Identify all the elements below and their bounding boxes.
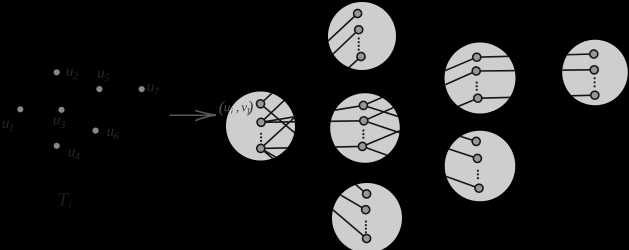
vertex C6.mid [473, 154, 481, 162]
vertex C3.mid [360, 117, 368, 125]
label u5 [98, 71, 109, 82]
edge C1.mid - C2.mid [261, 30, 359, 123]
vertical ellipsis in C2 [260, 133, 262, 135]
edge C3.bot - C5.bot [362, 98, 477, 146]
vertex C7.mid [590, 66, 598, 74]
label u6 [107, 129, 119, 140]
label T_i [59, 193, 72, 208]
label (u_i part [219, 101, 232, 116]
vertical ellipsis in C5 [476, 82, 478, 84]
label u3 [54, 118, 65, 129]
tree vertex u4 [54, 143, 60, 149]
cloud circle C2 (left, labelled (u_i,v_1)) [226, 92, 295, 161]
edge C2.top - C4.top [261, 104, 367, 194]
vertex C1.bot [357, 52, 365, 60]
edge C3.top - C6.top [363, 105, 476, 141]
vertex C1.top [354, 9, 362, 17]
tree vertex u6 [93, 128, 99, 134]
vertex C2.top (u_i,v_1) [256, 100, 264, 108]
vertex C6.top [472, 137, 480, 145]
edge C2.bot - C3.bot [261, 146, 363, 148]
tree vertex u1 [17, 106, 23, 112]
vertical ellipsis in C4 [365, 220, 367, 222]
edge C2.mid - C3.top [261, 105, 363, 122]
edge C3.mid - C6.mid [364, 121, 478, 159]
vertex C3.top [359, 101, 367, 109]
label u1 [3, 121, 13, 131]
tree vertex u7 [139, 86, 145, 92]
tree vertex u2 [54, 69, 60, 75]
edge C5.mid - C7.mid [476, 70, 594, 71]
label v_1) part [236, 101, 252, 116]
edge C3.bot - C6.bot [362, 146, 479, 188]
edge C2.mid - C3.mid [261, 121, 364, 123]
edge C5.top - C7.top [477, 54, 594, 57]
tree vertex u5 [96, 86, 102, 92]
vertex C4.bot [363, 234, 371, 242]
label u4 [68, 149, 79, 159]
vertex C7.top [590, 50, 598, 58]
edge C1.bot - C2.bot [261, 57, 361, 149]
label u2 [67, 69, 78, 79]
edge C2.bot - C4.mid [261, 148, 366, 209]
cloud circle C1 (top middle) [328, 2, 396, 70]
tree vertex u3 [58, 107, 64, 113]
edge C3.mid - C5.mid [364, 71, 476, 121]
vertex C4.mid [362, 206, 370, 214]
edge C3.top - C5.top [363, 57, 476, 105]
edge C2.bot - C4.bot [261, 148, 367, 238]
vertex C5.top [473, 53, 481, 61]
cloud circle C4 (bottom middle) [332, 183, 402, 250]
cloud circle C7 (far right) [562, 40, 628, 106]
vertical ellipsis in C7 [594, 77, 596, 79]
edge C1.top - C2.top [261, 14, 358, 104]
vertex C3.bot [358, 142, 366, 150]
vertex C5.mid [472, 67, 480, 75]
vertex C5.bot [474, 94, 482, 102]
vertex C6.bot [475, 184, 483, 192]
cloud circle C6 (right lower) [445, 131, 516, 202]
arrow [170, 111, 216, 121]
vertex C2.bot [257, 144, 265, 152]
vertex C1.mid [355, 26, 363, 34]
cloud circle C5 (right upper) [445, 43, 516, 114]
label u7 [148, 84, 160, 94]
vertical ellipsis in C1 [358, 37, 360, 39]
vertex C7.bot [591, 91, 599, 99]
cloud circle C3 (middle) [330, 93, 400, 163]
vertex C4.top [363, 190, 371, 198]
edge C5.bot - C7.bot [478, 95, 595, 98]
vertex C2.mid [257, 118, 265, 126]
vertical ellipsis in C6 [477, 170, 479, 172]
vertical ellipsis in C3 [362, 129, 364, 131]
